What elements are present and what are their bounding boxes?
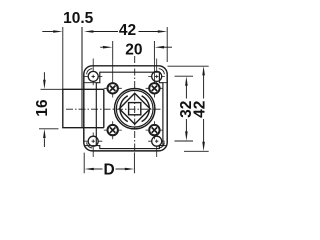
spindle square (129, 103, 141, 115)
dim 42 right extension lines (168, 66, 209, 151)
corner arc BL (87, 142, 93, 148)
dim 42 right bottom arrow (202, 142, 205, 151)
svg-text:42: 42 (191, 101, 208, 118)
dim 10.5 / 42 shared arrow (84, 30, 93, 33)
dim 16 bottom arrow (43, 139, 45, 148)
dim 32 top arrow (185, 76, 188, 85)
dim 20 right arrow (155, 46, 164, 49)
euro screw hole TR (146, 60, 164, 98)
dim D right arrow (125, 168, 134, 171)
horizontal center line (66, 108, 164, 110)
euro screw hole BR (146, 121, 164, 139)
svg-text:D: D (103, 161, 114, 178)
rosette outer circle (115, 89, 155, 129)
dim 42 right top arrow (202, 66, 205, 75)
dim 32 extension lines (175, 76, 194, 141)
inner case square with corner notches (96, 72, 163, 148)
corner arc TR (159, 69, 165, 75)
euro screw hole TL (104, 60, 122, 98)
spindle diamond (119, 93, 150, 124)
plate left edge double line (81, 27, 83, 128)
dim D extension lines (84, 153, 134, 174)
vertical center line (134, 56, 136, 153)
dim 32 bottom arrow (185, 131, 188, 140)
euro screw hole BL (104, 121, 122, 139)
corner arc TL (87, 69, 93, 75)
dim 16 extension lines (39, 89, 63, 129)
dim 20 left arrow (100, 46, 104, 48)
dim 10.5 left arrow (42, 31, 54, 33)
dim D left arrow (84, 168, 93, 171)
screw Phillips BL (84, 133, 102, 158)
dimensions (34, 10, 209, 178)
screw Phillips TL (84, 59, 102, 86)
dim 42 top right arrow (139, 31, 159, 33)
dim 10.5 extension lines (62, 27, 64, 89)
svg-text:16: 16 (34, 99, 51, 117)
nozzle protrusion (63, 89, 104, 127)
svg-text:42: 42 (119, 22, 136, 39)
screw Phillips BR (148, 133, 165, 158)
screw Phillips TR (148, 59, 165, 86)
dim 16 top arrow (43, 72, 45, 80)
svg-text:20: 20 (125, 41, 142, 58)
rosette inner arcs (120, 96, 149, 122)
rosette second circle (116, 90, 153, 127)
corner arc BR (159, 142, 165, 148)
corner tab lines (85, 83, 167, 146)
plate outline (84, 66, 167, 151)
svg-text:10.5: 10.5 (63, 10, 94, 27)
dim 20 extension lines (112, 41, 114, 60)
dim 42 right extension (166, 27, 168, 62)
